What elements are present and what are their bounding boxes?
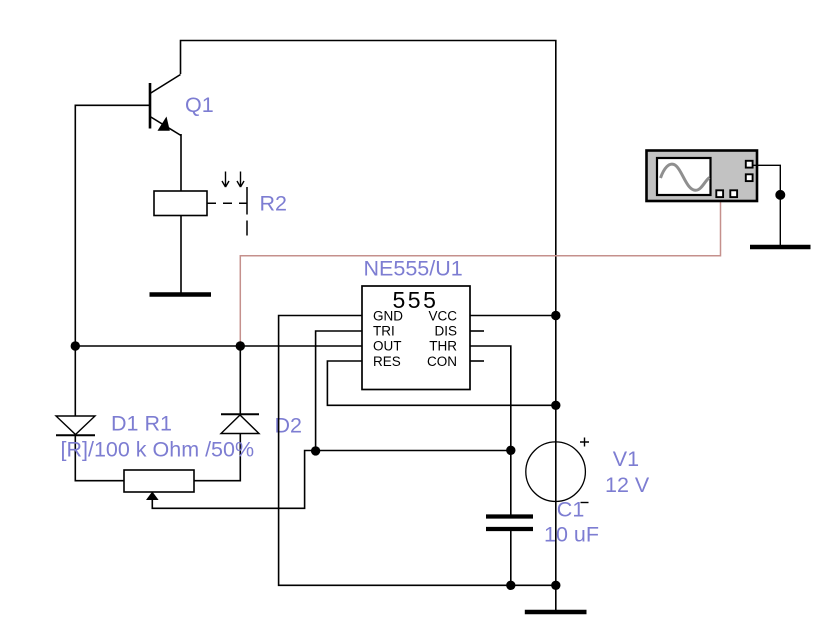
- wire VCC node down to RES node: [555, 315, 557, 405]
- capacitor C1: [486, 517, 533, 530]
- svg-text:CON: CON: [427, 354, 457, 369]
- potentiometer R1 wiper arrow: [146, 492, 159, 501]
- node TRI: [311, 446, 320, 455]
- wire TRI/THR link line: [316, 450, 511, 452]
- svg-text:GND: GND: [373, 308, 403, 323]
- oscilloscope: [647, 151, 758, 202]
- resistor R2 (light-dependent) box: [154, 191, 207, 216]
- wire THR pin down to THR node: [470, 346, 511, 451]
- wire RES pin loop to VCC column: [327, 361, 555, 405]
- node VCC: [551, 311, 560, 320]
- R2 light arrow 1: [222, 172, 229, 188]
- wire wiper return to TRI node: [152, 451, 315, 509]
- node OUT-D2: [236, 341, 245, 350]
- svg-text:OUT: OUT: [373, 339, 402, 354]
- R2 dashed control link: [207, 202, 247, 204]
- wire C1 down to bottom rail: [510, 531, 512, 585]
- svg-text:DIS: DIS: [434, 324, 457, 339]
- svg-text:D1 R1: D1 R1: [111, 412, 172, 436]
- transistor Q1: [150, 75, 181, 136]
- wire V1 column from RES node through V1 to bottom node: [555, 405, 557, 585]
- wire OUT pin long line to left: [75, 345, 362, 347]
- svg-text:12 V: 12 V: [605, 473, 650, 497]
- wire VCC pin to VCC column: [470, 315, 556, 317]
- wire Q1 base feedback: base left then down to OUT line: [75, 105, 150, 346]
- R2 light arrow 2: [237, 172, 244, 188]
- R2 control bar: [246, 187, 248, 236]
- voltage source V1: [526, 438, 589, 503]
- node THR: [506, 446, 515, 455]
- wire D2 anode down and left to R1 right end: [194, 434, 240, 481]
- potentiometer R1 body: [124, 470, 194, 492]
- svg-text:THR: THR: [429, 339, 457, 354]
- wire R2 box down to ground: [180, 216, 182, 294]
- diode D2: [221, 414, 259, 433]
- wire top rail from Q1 collector to VCC column: [181, 41, 556, 316]
- svg-text:RES: RES: [373, 354, 401, 369]
- ground (bottom, under V1): [525, 610, 587, 615]
- op-amp box U1 (555 timer): [362, 286, 470, 390]
- wire CON stub: [470, 360, 484, 362]
- wire TRI pin down to TRI node: [316, 331, 362, 451]
- wire node(75,346) down to D1 anode: [74, 346, 76, 416]
- node bottom-C1: [506, 581, 515, 590]
- node RES-VCC: [551, 401, 560, 410]
- ground (scope reference): [750, 245, 811, 250]
- svg-text:V1: V1: [613, 447, 639, 471]
- wire D1 cathode down and right to R1 left end: [75, 436, 124, 481]
- ground (under R2): [150, 292, 212, 297]
- wire GND pin to bottom rail: [279, 316, 556, 586]
- wire THR node down to C1: [510, 451, 512, 516]
- svg-text:R2: R2: [260, 191, 287, 215]
- diode D1: [56, 416, 95, 435]
- wire DIS stub: [470, 330, 484, 332]
- svg-text:VCC: VCC: [428, 308, 457, 323]
- wire node(240,346) down to D2 cathode: [239, 346, 241, 414]
- probe wire (pink) from scope to OUT node: [240, 201, 720, 346]
- svg-text:[R]/100 k Ohm /50%: [R]/100 k Ohm /50%: [61, 437, 255, 461]
- svg-text:TRI: TRI: [373, 324, 395, 339]
- wire ground stub below bottom node: [555, 585, 557, 610]
- svg-text:Q1: Q1: [185, 93, 214, 117]
- wire Q1 emitter down to R2 box: [180, 134, 182, 191]
- node scope lead: [775, 190, 785, 200]
- svg-text:10 uF: 10 uF: [544, 523, 599, 547]
- svg-text:NE555/U1: NE555/U1: [364, 257, 463, 281]
- wire scope reference lead to ground: [752, 165, 780, 245]
- node OUT-left: [71, 341, 80, 350]
- node bottom-V1: [551, 581, 560, 590]
